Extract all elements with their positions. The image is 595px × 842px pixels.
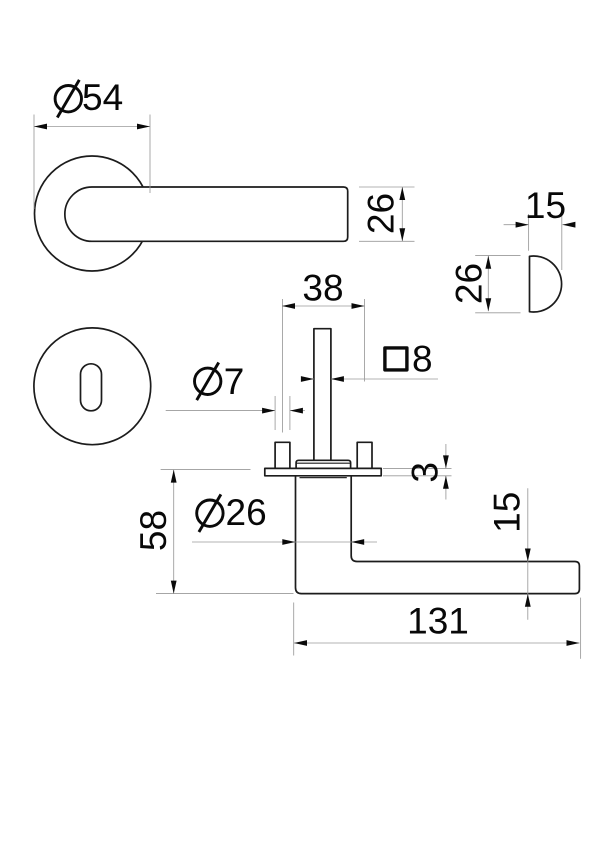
dimension Ø7 arrow left (262, 408, 275, 414)
dimension Ø26 arrow left (282, 539, 295, 545)
dimension 15 arrow right (562, 222, 575, 228)
dimension 3 arrow up (443, 476, 449, 489)
dimension 3 text (rotated) (405, 462, 446, 483)
dimension 58 arrow down (171, 581, 177, 594)
dimension 15 line right segment (562, 224, 574, 226)
neck shoulder line under plate (300, 477, 347, 479)
lever handle (front view) (65, 187, 348, 241)
dimension 26 (section height) top extension (475, 254, 520, 256)
dimension Ø7 line left segment (166, 410, 275, 412)
svg-text:58: 58 (133, 510, 174, 551)
dimension Ø54 extension line left (33, 115, 35, 210)
dimension square-8 arrow right (331, 376, 344, 382)
dimension Ø7 right extension (289, 396, 291, 430)
dimension 131 right extension (580, 598, 582, 659)
dimension Ø7 left extension (274, 396, 276, 430)
bearing collar inner line (297, 462, 351, 464)
dimension 26 (lever height) extension bottom (359, 240, 415, 242)
dimension 15 lever arrow up (525, 594, 531, 607)
dimension Ø54 text (55, 80, 81, 118)
dimension 58 top extension (161, 469, 251, 471)
dimension 26 (lever height) extension top (359, 186, 415, 188)
dimension square-8 leader left segment (301, 378, 314, 380)
dimension 131 left extension (293, 603, 295, 656)
svg-text:8: 8 (412, 339, 433, 380)
dimension 3 bottom extension (383, 475, 452, 477)
dimension 15 line left segment (504, 224, 529, 226)
svg-text:131: 131 (407, 601, 469, 642)
dimension 3 line upper segment (445, 444, 447, 468)
dimension Ø54 extension line right (149, 115, 151, 194)
dimension 26 section arrow up (485, 256, 491, 269)
dimension square-8 arrow left (301, 376, 314, 382)
svg-text:26: 26 (448, 263, 489, 304)
dimension 38 arrow left (282, 303, 295, 309)
dimension 38 arrow right (352, 303, 365, 309)
svg-text:15: 15 (525, 185, 566, 226)
dimension Ø26 line (192, 541, 377, 543)
svg-text:54: 54 (82, 77, 123, 118)
svg-text:26: 26 (361, 193, 402, 234)
dimension Ø26 arrow right (351, 539, 364, 545)
dimension 3 line lower segment (445, 476, 447, 500)
dimension 15 lever text (rotated) (487, 492, 528, 533)
dimension Ø54 arrow right (137, 124, 150, 130)
dimension 15 (lever thickness) vertical line (527, 488, 529, 620)
dimension Ø7 line right segment (290, 410, 305, 412)
dimension 26 (section height) line (487, 256, 489, 311)
dimension 26 text (rotated) (361, 193, 402, 234)
dimension 58 arrow up (171, 470, 177, 483)
dimension 131 line (294, 642, 580, 644)
dimension 26 (lever height) line (401, 187, 403, 241)
svg-text:3: 3 (405, 462, 446, 483)
svg-text:7: 7 (224, 361, 245, 402)
dimension 3 top extension (383, 467, 452, 469)
dimension 58 text (rotated) (133, 510, 174, 551)
dimension Ø54 line (34, 126, 150, 128)
handle L-shape (side view) (296, 476, 580, 594)
svg-text:26: 26 (226, 492, 267, 533)
fixing post left (275, 442, 290, 468)
spindle (square bar, side view) (314, 329, 331, 461)
dimension 15 lever arrow down (525, 549, 531, 562)
dimension 15 (section width) right extension (561, 214, 563, 270)
dimension Ø7 text (195, 363, 221, 401)
square symbol of dimension 8 (385, 348, 407, 370)
dimension 3 arrow down (443, 455, 449, 468)
dimension Ø54 arrow left (34, 124, 47, 130)
rosette circle (front view) (35, 156, 150, 271)
rose plate (side view) (265, 468, 381, 475)
dimension 26 arrow down (399, 228, 405, 241)
dimension 26 (section height) bottom extension (475, 312, 520, 314)
keyhole slot (81, 364, 102, 411)
svg-text:15: 15 (487, 492, 528, 533)
dimension 131 arrow left (294, 640, 307, 646)
bearing collar on plate (296, 460, 351, 469)
dimension 58 bottom extension (156, 593, 294, 595)
dimension Ø26 text (197, 494, 223, 532)
D-section profile (cross-section of lever) (530, 256, 562, 312)
dimension 15 arrow left (516, 222, 529, 228)
fixing post right (357, 442, 372, 468)
svg-text:38: 38 (302, 268, 343, 309)
dimension 38 right extension (364, 299, 366, 382)
dimension 38 line (282, 305, 365, 307)
dimension square-8 leader right segment (331, 378, 438, 380)
dimension 38 left extension (282, 299, 284, 433)
dimension 26 section text (rotated) (448, 263, 489, 304)
escutcheon circle (keyhole rosette) (34, 328, 151, 445)
dimension 131 arrow right (567, 640, 580, 646)
dimension 26 section arrow down (485, 298, 491, 311)
dimension 58 line (173, 470, 175, 594)
dimension 26 arrow up (399, 187, 405, 200)
dimension Ø7 arrow right (290, 408, 303, 414)
dimension 15 (section width) left extension (528, 214, 530, 251)
